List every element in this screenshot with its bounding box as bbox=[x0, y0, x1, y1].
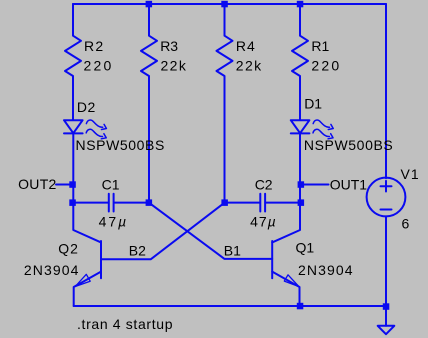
svg-text:D2: D2 bbox=[77, 99, 96, 115]
svg-text:OUT2: OUT2 bbox=[18, 176, 57, 192]
svg-text:R1: R1 bbox=[311, 38, 329, 54]
svg-text:R4: R4 bbox=[236, 38, 256, 54]
svg-text:220: 220 bbox=[311, 58, 341, 74]
svg-text:47µ: 47µ bbox=[250, 213, 277, 229]
svg-text:D1: D1 bbox=[304, 95, 322, 111]
svg-text:22k: 22k bbox=[236, 58, 263, 74]
svg-text:B1: B1 bbox=[224, 242, 241, 258]
svg-text:R3: R3 bbox=[160, 38, 178, 54]
svg-text:V1: V1 bbox=[401, 166, 420, 182]
svg-text:22k: 22k bbox=[161, 58, 188, 74]
svg-text:Q1: Q1 bbox=[296, 240, 315, 256]
svg-text:Q2: Q2 bbox=[58, 241, 79, 257]
svg-text:R2: R2 bbox=[84, 38, 105, 54]
svg-text:NSPW500BS: NSPW500BS bbox=[76, 137, 165, 153]
svg-text:B2: B2 bbox=[129, 243, 146, 259]
svg-text:NSPW500BS: NSPW500BS bbox=[304, 137, 393, 153]
svg-text:C2: C2 bbox=[255, 176, 273, 192]
svg-text:OUT1: OUT1 bbox=[330, 176, 368, 192]
svg-text:2N3904: 2N3904 bbox=[298, 262, 354, 278]
svg-text:2N3904: 2N3904 bbox=[24, 262, 80, 278]
svg-text:47µ: 47µ bbox=[99, 213, 129, 229]
svg-text:220: 220 bbox=[84, 58, 114, 74]
svg-text:6: 6 bbox=[402, 215, 410, 231]
svg-text:.tran 4 startup: .tran 4 startup bbox=[77, 316, 173, 332]
svg-text:C1: C1 bbox=[102, 177, 120, 193]
